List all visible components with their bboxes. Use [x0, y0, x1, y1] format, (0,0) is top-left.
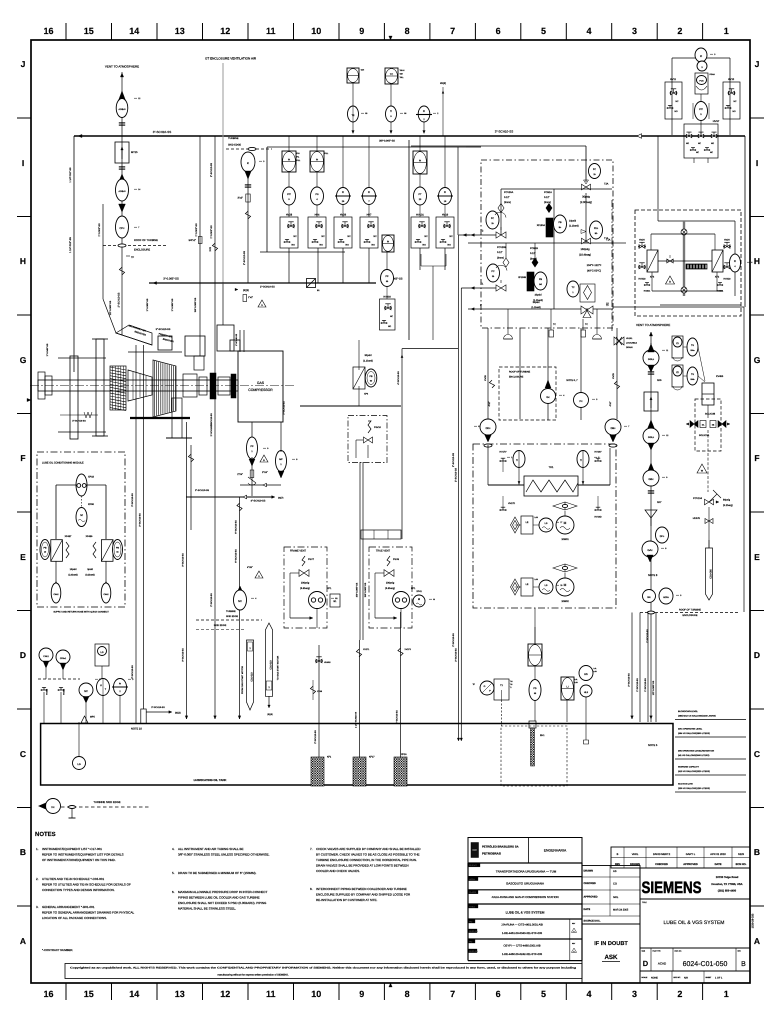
- svg-text:6: 6: [496, 26, 501, 36]
- valve HV2D2 right: [723, 263, 731, 281]
- rev table text: [615, 853, 747, 866]
- true vent box: [369, 547, 412, 628]
- gt enclosure vent wire: [222, 63, 224, 325]
- svg-text:HV303: HV303: [383, 296, 391, 299]
- balloon DDc: [480, 419, 496, 447]
- coupling dark 1: [210, 373, 216, 399]
- svg-text:N/A: N/A: [684, 976, 688, 979]
- petrobras name: [482, 845, 519, 856]
- svg-text:XP4E7: XP4E7: [65, 535, 73, 538]
- svg-text:6024-C01-050: 6024-C01-050: [683, 961, 728, 968]
- instrument TIT: [386, 106, 397, 122]
- svg-text:HV17D: HV17D: [508, 502, 515, 505]
- shaft block 3: [218, 377, 230, 395]
- svg-text:COOLER AND CHECK VALVES.: COOLER AND CHECK VALVES.: [316, 869, 360, 873]
- instrument PI cross: [416, 106, 432, 122]
- svg-text:DRAIN: DRAIN: [626, 346, 633, 349]
- lubricating oil tank: [41, 724, 673, 786]
- svg-text:TH1: TH1: [549, 466, 554, 469]
- svg-text:2: 2: [598, 456, 599, 459]
- svg-text:ACAD: ACAD: [658, 962, 667, 966]
- svg-text:C: C: [754, 749, 760, 759]
- svg-text:3"-SCH10-SS: 3"-SCH10-SS: [131, 665, 134, 679]
- drain spring: [60, 412, 98, 423]
- svg-text:2"-SCH10-SS: 2"-SCH10-SS: [260, 286, 275, 289]
- cooler pipe: [488, 445, 610, 485]
- valve XV271: [356, 648, 370, 657]
- wire 402 drop: [397, 349, 458, 539]
- switch HS: [579, 666, 598, 681]
- transfer filter XP4: [353, 367, 369, 396]
- bell W1: [504, 335, 513, 340]
- valve HV2V right: [723, 239, 731, 249]
- exhaust box 2: [217, 325, 234, 351]
- balloon Gc: [541, 380, 556, 404]
- transmitter PI vgs: [730, 254, 741, 272]
- svg-text:VENT TO ATMOSPHERE: VENT TO ATMOSPHERE: [105, 65, 139, 69]
- svg-text:(M1 US GALLONS(3600 LITERS): (M1 US GALLONS(3600 LITERS): [678, 754, 710, 757]
- svg-text:GBc: GBc: [648, 478, 654, 481]
- svg-text:PB: PB: [558, 221, 562, 224]
- nozzle MP5: [81, 716, 95, 724]
- svg-text:PI: PI: [700, 55, 703, 58]
- valve assembly HV28: [280, 205, 298, 248]
- svg-text:PC: PC: [593, 168, 597, 171]
- lube drain wire: [235, 497, 243, 719]
- svg-text:3"-SCH10-SS: 3"-SCH10-SS: [283, 401, 286, 415]
- wire vent riser: [121, 72, 123, 335]
- gas compressor box: [238, 351, 283, 422]
- svg-text:PI: PI: [119, 683, 122, 686]
- svg-text:CONNECTION TYPES AND DESIGN IN: CONNECTION TYPES AND DESIGN INFORMATION.: [42, 888, 115, 892]
- svg-text:GAc: GAc: [647, 549, 653, 552]
- svg-text:MAXIMUM ALLOWABLE PRESSURE DRO: MAXIMUM ALLOWABLE PRESSURE DROP IN INTER…: [178, 890, 268, 894]
- svg-text:3: 3: [132, 678, 133, 681]
- svg-text:SOURCE DOC.: SOURCE DOC.: [584, 920, 601, 923]
- svg-text:PETRÓLEO BRASILEIRO SA: PETRÓLEO BRASILEIRO SA: [482, 845, 519, 849]
- svg-text:NC: NC: [676, 100, 680, 103]
- svg-text:TAHH: TAHH: [400, 69, 405, 72]
- svg-text:3: 3: [632, 26, 637, 36]
- coupling dark 2: [231, 374, 236, 398]
- svg-text:2"-SCH10-SS: 2"-SCH10-SS: [210, 593, 213, 607]
- svg-text:XF3: XF3: [650, 276, 655, 279]
- svg-text:5.: 5.: [172, 871, 175, 875]
- filter XF4E7: [51, 535, 72, 561]
- upper arm: [58, 358, 106, 432]
- valve HV16V: [594, 451, 602, 462]
- balloon NC drain: [234, 586, 247, 610]
- sensor TC: [567, 281, 579, 297]
- svg-text:G: G: [484, 685, 486, 688]
- frame vent label: [290, 550, 307, 553]
- balloon GGLc: [643, 344, 659, 372]
- pcv dashed enclosure: [481, 160, 613, 328]
- svg-text:HV11: HV11: [670, 78, 677, 81]
- svg-text:PIT: PIT: [699, 108, 703, 111]
- svg-text:PIT: PIT: [287, 193, 291, 196]
- svg-text:1"-0.063"-SS: 1"-0.063"-SS: [98, 223, 101, 237]
- balloon Hc: [39, 799, 61, 814]
- svg-text:FRAME VENT: FRAME VENT: [290, 550, 307, 553]
- valve HV2V left: [638, 239, 646, 249]
- svg-text:CPNc1: CPNc1: [60, 657, 67, 660]
- svg-text:(3mm): (3mm): [544, 201, 551, 204]
- svg-text:TO GAS START MOTOR: TO GAS START MOTOR: [277, 655, 280, 680]
- wire sol drop: [707, 405, 709, 492]
- svg-text:2"-SCH10-SS: 2"-SCH10-SS: [243, 250, 246, 265]
- lube oil module box: [37, 452, 125, 607]
- left return label: [69, 237, 72, 253]
- svg-text:BLOWDOWN LEVEL: BLOWDOWN LEVEL: [678, 710, 699, 713]
- svg-text:NO: NO: [675, 110, 679, 113]
- svg-text:H: H: [20, 256, 26, 266]
- vgs grey main: [683, 221, 685, 296]
- svg-text:MAX OPERATING LEVEL: MAX OPERATING LEVEL: [678, 728, 703, 731]
- svg-text:DATE: DATE: [715, 863, 722, 866]
- svg-text:6: 6: [478, 425, 479, 428]
- gauge PF 5b: [381, 252, 394, 287]
- label PCB2B: [497, 246, 507, 260]
- svg-text:5: 5: [541, 26, 546, 36]
- svg-text:AREA: AREA: [469, 878, 475, 881]
- svg-text:3: 3: [714, 53, 715, 56]
- svg-text:NO: NO: [372, 244, 376, 247]
- svg-text:M: M: [418, 598, 420, 601]
- svg-text:DBc: DBc: [611, 427, 616, 430]
- svg-text:3"X4": 3"X4": [262, 471, 268, 474]
- flag C01-010 to: [265, 623, 279, 716]
- svg-text:LG: LG: [77, 763, 80, 766]
- gauge PI module right: [113, 540, 123, 560]
- svg-text:NC: NC: [238, 600, 242, 603]
- svg-text:SUPPLY AND RETURN HOSE WITH QU: SUPPLY AND RETURN HOSE WITH QUICK-CONNEC…: [53, 611, 109, 614]
- tank fill nozzle: [141, 706, 181, 724]
- roof enclosure dashed box: [499, 367, 556, 420]
- compressor top pipes: [235, 330, 244, 352]
- svg-text:PSV10: PSV10: [374, 426, 382, 429]
- svg-text:HV101: HV101: [416, 214, 424, 217]
- svg-text:PCB1A: PCB1A: [544, 191, 552, 194]
- hand valve HV2D1 right: [717, 283, 724, 293]
- svg-text:OSYPI — C/TS-4460.0001 A/B: OSYPI — C/TS-4460.0001 A/B: [503, 945, 540, 948]
- svg-text:(3mm): (3mm): [497, 257, 504, 260]
- vent arrow up: [120, 73, 123, 77]
- svg-text:7: 7: [450, 989, 455, 999]
- svg-text:500b: 500b: [691, 378, 695, 381]
- right vent arrow: [649, 332, 652, 348]
- balloon CPNc1: [56, 650, 70, 679]
- svg-text:10730 Telge Road: 10730 Telge Road: [716, 876, 739, 879]
- svg-text:45(4): 45(4): [440, 82, 446, 85]
- svg-text:(6)(3): (6)(3): [243, 289, 249, 292]
- main header right drop wire: [744, 136, 746, 307]
- left frame label: [46, 343, 49, 356]
- reducer 4x6: [247, 566, 253, 569]
- svg-text:CNc1: CNc1: [43, 655, 49, 658]
- turbine shaft: [38, 380, 238, 391]
- svg-text:PB: PB: [539, 278, 543, 281]
- shaft block 1: [183, 374, 197, 397]
- svg-text:NC: NC: [425, 235, 429, 238]
- svg-text:GRL: GRL: [613, 896, 619, 899]
- svg-text:XP4E6: XP4E6: [86, 535, 94, 538]
- svg-text:MATERIAL SHALL BE STAINLESS ST: MATERIAL SHALL BE STAINLESS STEEL.: [178, 907, 236, 911]
- note 8: [310, 887, 411, 902]
- drain header wire: [186, 496, 272, 498]
- svg-text:3"-SCH10-SS: 3"-SCH10-SS: [131, 493, 134, 507]
- svg-text:3: 3: [632, 989, 637, 999]
- turbine top line: [128, 351, 182, 353]
- arrow T1: [461, 283, 496, 290]
- svg-text:PILL: PILL: [297, 159, 301, 162]
- svg-text:DRAIN VALVES SHALL BE PROVIDED: DRAIN VALVES SHALL BE PROVIDED AT LOW PO…: [316, 864, 409, 868]
- sight glass LG box: [95, 644, 109, 679]
- svg-text:DRAIN TO BE SUBMERGED A MINIMU: DRAIN TO BE SUBMERGED A MINIMUM OF 6" (1…: [178, 871, 256, 875]
- svg-text:100psig: 100psig: [386, 582, 395, 585]
- note 2: [36, 877, 131, 892]
- svg-text:NC: NC: [390, 315, 394, 318]
- wire z chain: [683, 347, 705, 382]
- support column 1: [70, 356, 78, 439]
- gauge PI 26: [335, 136, 351, 205]
- svg-text:104°F-122°F: 104°F-122°F: [587, 264, 602, 267]
- svg-text:PI: PI: [734, 260, 737, 263]
- gauge PDc: [590, 221, 603, 239]
- dwg row 1: [468, 919, 577, 939]
- svg-text:TALL: TALL: [400, 76, 404, 79]
- svg-text:(6)(2): (6)(2): [175, 712, 181, 715]
- grid row letters right: [754, 59, 761, 946]
- svg-text:7: 7: [628, 425, 629, 428]
- svg-text:2: 2: [677, 26, 682, 36]
- svg-text:(694 US GALLONS(3800 LITERS): (694 US GALLONS(3800 LITERS): [678, 732, 710, 735]
- wire drop 143: [139, 345, 144, 709]
- svg-text:7: 7: [138, 226, 139, 229]
- svg-text:KF1: KF1: [327, 756, 332, 759]
- svg-text:3"x2": 3"x2": [237, 197, 243, 200]
- svg-text:10psid: 10psid: [70, 568, 77, 571]
- svg-text:10psid: 10psid: [534, 294, 542, 297]
- svg-text:NC: NC: [322, 235, 326, 238]
- module wires: [56, 485, 106, 539]
- svg-text:9: 9: [359, 26, 364, 36]
- svg-text:HV7: HV7: [367, 214, 372, 217]
- balloon CNc1: [39, 648, 53, 679]
- bearing box: [158, 336, 172, 350]
- gauge PI tank: [112, 679, 128, 724]
- tank right edge wire: [672, 724, 674, 786]
- svg-text:NO: NO: [320, 244, 324, 247]
- svg-text:1"-SCH10-SS: 1"-SCH10-SS: [396, 710, 399, 724]
- svg-text:2: 2: [677, 989, 682, 999]
- heater EH1: [529, 721, 545, 766]
- balloon NC tank: [79, 683, 93, 723]
- svg-text:DAVID MERTZ: DAVID MERTZ: [653, 853, 671, 856]
- center bowtie valve: [667, 255, 673, 263]
- svg-text:PI: PI: [342, 191, 345, 194]
- svg-text:(0.2bard): (0.2bard): [85, 574, 95, 577]
- svg-text:WORKING CAPACITY: WORKING CAPACITY: [678, 766, 700, 769]
- wire roof drops: [488, 328, 617, 420]
- svg-text:TC: TC: [390, 73, 393, 76]
- svg-text:T1A: T1A: [606, 239, 611, 242]
- plant row: [468, 890, 559, 899]
- svg-text:M: M: [564, 521, 567, 525]
- fan chain 2: [511, 578, 554, 596]
- notes header: [35, 831, 56, 838]
- svg-text:TI: TI: [390, 110, 392, 113]
- svg-text:J: J: [755, 59, 760, 69]
- svg-text:ADRc: ADRc: [663, 596, 670, 599]
- svg-text:(281) 856-4400: (281) 856-4400: [718, 890, 737, 893]
- svg-text:XF150A: XF150A: [537, 224, 546, 227]
- label 10psid A: [569, 220, 579, 228]
- svg-text:4"X6": 4"X6": [247, 566, 253, 569]
- svg-text:PD: PD: [533, 687, 537, 690]
- skid edge dashed bottom: [61, 806, 150, 809]
- svg-text:1"-SCH10-SS: 1"-SCH10-SS: [646, 629, 649, 643]
- svg-text:C01-060: C01-060: [710, 569, 713, 579]
- wire x200: [199, 136, 201, 356]
- svg-text:AGBc0: AGBc0: [119, 108, 127, 111]
- balloon Wc: [643, 590, 656, 603]
- svg-text:PCV154: PCV154: [693, 497, 703, 500]
- svg-text:D: D: [754, 650, 760, 660]
- svg-text:LUBRICATING OIL TANK: LUBRICATING OIL TANK: [194, 778, 227, 782]
- svg-text:PI: PI: [419, 160, 422, 163]
- filter XF150A: [537, 218, 553, 237]
- gauge PB: [554, 215, 567, 233]
- svg-text:PC: PC: [491, 217, 495, 220]
- svg-text:LOCKABLE: LOCKABLE: [626, 342, 638, 345]
- branch arrow 6-3: [235, 288, 249, 292]
- frame vent arrow: [290, 609, 317, 629]
- wire drop 136: [131, 345, 136, 723]
- svg-text:2: 2: [99, 678, 100, 681]
- left flange 2: [45, 376, 52, 395]
- svg-text:NC: NC: [84, 690, 88, 693]
- svg-text:10M01: 10M01: [561, 538, 569, 541]
- svg-text:3/8"-0.065" STAINLESS STEEL UN: 3/8"-0.065" STAINLESS STEEL UNLESS SPECI…: [178, 853, 270, 857]
- cooler dashdot enclosure: [473, 444, 616, 608]
- instrument PI 3: [695, 48, 707, 71]
- svg-text:XV273: XV273: [405, 648, 412, 651]
- svg-text:XF16: XF16: [401, 753, 407, 756]
- svg-text:M: M: [564, 583, 567, 587]
- svg-text:LUBE OIL & VGS SYSTEM: LUBE OIL & VGS SYSTEM: [506, 911, 545, 915]
- svg-text:APPROVED: APPROVED: [584, 896, 598, 899]
- svg-text:HV2D1: HV2D1: [644, 290, 651, 293]
- svg-text:14: 14: [138, 188, 140, 191]
- psv XP17: [302, 556, 315, 566]
- svg-text:12: 12: [666, 434, 668, 437]
- svg-text:2"-SCH10-SS: 2"-SCH10-SS: [210, 413, 213, 427]
- motor XP41: [413, 590, 425, 607]
- svg-text:D: D: [643, 959, 649, 968]
- svg-text:A: A: [20, 936, 26, 946]
- svg-text:(1.1bard): (1.1bard): [531, 306, 541, 309]
- balloon GGLc1: [643, 420, 659, 450]
- valve box HV10: [723, 78, 740, 119]
- svg-text:SKID EDGE: SKID EDGE: [228, 144, 241, 147]
- reducer 4x2 right: [609, 401, 612, 406]
- pcv inner lines: [468, 189, 613, 309]
- svg-text:PO: PO: [469, 940, 472, 943]
- instrument rack frame: [260, 140, 466, 340]
- transmitter LIT: [97, 679, 110, 724]
- strainer KF1: [311, 756, 332, 787]
- svg-text:80psig: 80psig: [723, 499, 731, 502]
- compressor drop right wire: [281, 401, 286, 452]
- svg-text:LAL: LAL: [575, 678, 578, 681]
- svg-text:ROOF OF TURBINE: ROOF OF TURBINE: [679, 609, 701, 612]
- svg-text:ENCLOSURE: ENCLOSURE: [509, 376, 524, 379]
- svg-text:1"-0.065"-SS: 1"-0.065"-SS: [146, 298, 149, 311]
- label 3sch10 turbine top: [156, 328, 171, 331]
- titleblock divider: [528, 838, 530, 864]
- svg-text:Bc: Bc: [559, 226, 561, 229]
- svg-text:KV26: KV26: [484, 375, 487, 381]
- svg-text:77: 77: [560, 521, 562, 524]
- svg-text:ENCLOSURE: ENCLOSURE: [134, 249, 150, 252]
- svg-text:3/4"-0.065"-SS: 3/4"-0.065"-SS: [356, 582, 359, 597]
- svg-text:4.: 4.: [172, 847, 175, 851]
- svg-text:5"-SCH10-SS: 5"-SCH10-SS: [235, 549, 238, 563]
- svg-text:PC: PC: [491, 270, 495, 273]
- svg-text:A: A: [754, 936, 760, 946]
- double vent wires: [360, 462, 363, 640]
- break z vent line: [119, 267, 124, 275]
- valve XV273: [398, 648, 412, 656]
- note 6: [172, 890, 268, 911]
- svg-text:EH1: EH1: [540, 734, 545, 737]
- svg-text:LUBE OIL & VGS SYSTEM: LUBE OIL & VGS SYSTEM: [664, 920, 725, 926]
- svg-text:LOCATION OF ALL PACKAGE CONNEC: LOCATION OF ALL PACKAGE CONNECTIONS.: [42, 916, 107, 920]
- gauge G P: [472, 681, 494, 695]
- label PCB1B: [530, 247, 538, 261]
- pressure inst box 2: [310, 136, 328, 187]
- svg-text:NC: NC: [734, 100, 738, 103]
- strainer KF17: [353, 756, 375, 787]
- x103 label: [98, 223, 101, 237]
- svg-text:I: I: [22, 158, 24, 168]
- instrument box TC: [385, 68, 405, 84]
- gauge PBc 2: [687, 367, 698, 385]
- cooler TH1: [524, 466, 578, 496]
- wire TC drops: [508, 309, 597, 337]
- svg-text:ASK: ASK: [604, 954, 618, 961]
- valve KV495: [702, 375, 724, 405]
- svg-text:1 1/4"-010"-SS: 1 1/4"-010"-SS: [69, 167, 72, 183]
- svg-text:8.: 8.: [310, 887, 313, 891]
- svg-text:TC: TC: [553, 323, 556, 326]
- label 150psig: [579, 248, 591, 256]
- svg-text:(1.1bard): (1.1bard): [569, 225, 579, 228]
- svg-text:30psid: 30psid: [533, 301, 540, 304]
- svg-text:KF17: KF17: [369, 756, 375, 759]
- tank label: [194, 778, 227, 782]
- svg-text:XF2: XF2: [715, 276, 720, 279]
- rev table columns: [624, 847, 732, 868]
- motor KP66: [76, 496, 95, 527]
- svg-text:6.: 6.: [172, 890, 175, 894]
- compressor cone: [128, 370, 152, 401]
- svg-text:H: H: [754, 256, 760, 266]
- svg-text:FROM GAS START MOTOR: FROM GAS START MOTOR: [241, 666, 244, 694]
- true vent label: [376, 550, 391, 553]
- wire PIT stem: [700, 94, 702, 135]
